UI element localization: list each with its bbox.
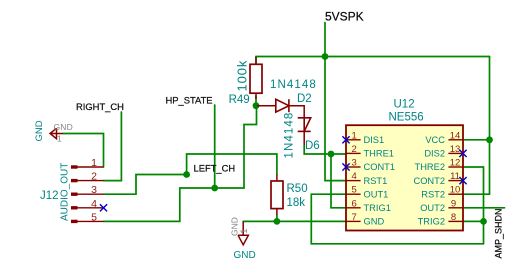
svg-text:1: 1 xyxy=(352,130,357,141)
svg-text:7: 7 xyxy=(352,212,357,223)
svg-text:8: 8 xyxy=(451,212,456,223)
wire HP_STATE label stub xyxy=(214,105,216,188)
junction node VCC pin14 xyxy=(486,136,493,143)
wire pin9 OUT2 to AMP_SHDN xyxy=(463,207,505,209)
svg-text:OUT1: OUT1 xyxy=(364,189,389,199)
svg-text:6: 6 xyxy=(352,198,357,209)
svg-text:RST1: RST1 xyxy=(364,176,388,186)
junction node R49/D2/HP xyxy=(253,102,260,109)
no-connect X pin1 xyxy=(100,136,467,211)
pin 2 xyxy=(77,180,104,182)
svg-text:RST2: RST2 xyxy=(421,189,445,199)
svg-text:1: 1 xyxy=(57,134,62,144)
svg-text:3: 3 xyxy=(352,158,357,169)
svg-text:14: 14 xyxy=(450,130,461,141)
wire jack pin5 to HP_STATE node xyxy=(104,188,215,221)
svg-text:12: 12 xyxy=(450,158,461,169)
svg-text:D2: D2 xyxy=(297,93,312,105)
svg-text:HP_STATE: HP_STATE xyxy=(166,95,213,106)
svg-text:R49: R49 xyxy=(229,94,250,106)
ground GND1 (left, rotated) xyxy=(50,128,63,138)
wire pin5 OUT1 bottom run xyxy=(311,194,483,244)
svg-text:J12: J12 xyxy=(40,190,59,202)
pin 4 xyxy=(77,207,104,209)
svg-text:2: 2 xyxy=(91,171,97,183)
svg-text:11: 11 xyxy=(450,171,460,182)
no-connect X pin13 xyxy=(459,150,466,157)
wire jack pin3 to LEFT_CH node xyxy=(104,175,187,195)
svg-text:13: 13 xyxy=(450,144,461,155)
wire GND1 to jack pin1 xyxy=(63,134,104,168)
wire LEFT_CH node to R50 top xyxy=(187,154,277,175)
svg-text:RIGHT_CH: RIGHT_CH xyxy=(76,101,124,112)
svg-text:1: 1 xyxy=(239,229,250,234)
svg-text:5VSPK: 5VSPK xyxy=(325,10,364,24)
svg-text:5: 5 xyxy=(352,185,357,196)
wire 5VSPK label stub xyxy=(324,23,326,57)
svg-text:CONT1: CONT1 xyxy=(364,162,396,172)
diode D6 1N4148 xyxy=(298,118,311,145)
svg-text:4: 4 xyxy=(352,171,357,182)
svg-text:GND: GND xyxy=(34,120,45,141)
junction node LEFT_CH xyxy=(183,171,190,178)
svg-text:OUT2: OUT2 xyxy=(420,203,445,213)
pin 6 stub xyxy=(346,207,361,209)
svg-text:AMP_SHDN: AMP_SHDN xyxy=(494,208,504,258)
pin 10 stub xyxy=(448,193,463,195)
svg-text:D6: D6 xyxy=(305,140,320,152)
pin 7 stub xyxy=(346,220,361,222)
wire R50 bottom to GND rail xyxy=(276,215,278,221)
wire pin12 THRE2 drop xyxy=(463,167,484,244)
svg-text:DIS1: DIS1 xyxy=(364,135,385,145)
svg-text:THRE1: THRE1 xyxy=(364,149,394,159)
svg-text:VCC: VCC xyxy=(425,135,445,145)
wire RIGHT_CH to jack pin2 xyxy=(104,112,122,181)
svg-text:GND: GND xyxy=(364,217,385,227)
wire R49 bottom to node xyxy=(255,96,257,106)
svg-text:CONT2: CONT2 xyxy=(413,176,445,186)
pin 3 stub xyxy=(346,166,361,168)
svg-text:1: 1 xyxy=(91,157,97,169)
svg-text:100k: 100k xyxy=(235,60,250,92)
svg-text:DIS2: DIS2 xyxy=(424,149,445,159)
connector J12 AUDIO_OUT xyxy=(71,165,104,223)
no-connect X pin11 xyxy=(459,177,466,184)
resistor R49 100k xyxy=(250,57,262,99)
junction node 5VSPK/R49 rail xyxy=(322,53,329,60)
svg-text:9: 9 xyxy=(451,198,456,209)
junction node HP_STATE xyxy=(211,185,218,192)
junction node GND/R50 xyxy=(274,218,281,225)
pin 2 stub xyxy=(346,152,361,154)
svg-text:R50: R50 xyxy=(287,183,308,195)
resistor R50 18k xyxy=(271,174,283,215)
pin 1 xyxy=(72,166,104,168)
pin 13 stub xyxy=(448,152,463,154)
pin 5 xyxy=(77,220,104,222)
pin 3 xyxy=(77,193,104,195)
svg-text:GND: GND xyxy=(54,122,74,132)
svg-text:1N4148: 1N4148 xyxy=(284,112,296,159)
wire GND2 rail to pin7 xyxy=(243,220,346,222)
pin 12 stub xyxy=(448,166,463,168)
wire pin8 TRIG2 xyxy=(463,220,484,222)
wire VCC to pin10 RST2 xyxy=(463,140,490,194)
pin 1 stub xyxy=(346,139,361,141)
svg-text:NE556: NE556 xyxy=(389,112,424,124)
wire D6 cathode to pin2 THRE1 xyxy=(304,145,346,154)
svg-text:3: 3 xyxy=(91,184,97,196)
svg-text:18k: 18k xyxy=(287,197,306,209)
pin 11 stub xyxy=(448,180,463,182)
svg-text:TRIG2: TRIG2 xyxy=(418,217,445,227)
U12 left pin stubs xyxy=(346,140,463,222)
svg-text:2: 2 xyxy=(352,144,357,155)
svg-text:TRIG1: TRIG1 xyxy=(364,203,391,213)
wire 5VSPK to pin4 RST1 xyxy=(325,57,346,181)
svg-text:U12: U12 xyxy=(394,99,415,111)
svg-text:4: 4 xyxy=(91,198,97,210)
junction node THRE1/TRIG1 xyxy=(328,151,335,158)
pin 14 stub xyxy=(448,139,463,141)
svg-text:5: 5 xyxy=(91,211,97,223)
wire HP_STATE node to R49/D2 node xyxy=(215,106,257,188)
pin 5 stub xyxy=(346,193,361,195)
svg-text:LEFT_CH: LEFT_CH xyxy=(194,163,236,174)
wire pin14 VCC xyxy=(463,139,490,141)
ground GND2 (bottom middle) xyxy=(238,221,248,244)
svg-text:1N4148: 1N4148 xyxy=(270,79,317,91)
svg-text:AUDIO_OUT: AUDIO_OUT xyxy=(59,163,70,221)
no-connect X pin3 xyxy=(342,163,349,170)
pin 8 stub xyxy=(448,220,463,222)
wire 5VSPK top rail xyxy=(256,56,490,58)
diode D2 1N4148 xyxy=(257,99,304,118)
svg-text:GND: GND xyxy=(234,250,256,261)
wire R49 top to rail xyxy=(255,57,257,65)
junction node TRIG2/THRE2 xyxy=(480,218,487,225)
IC U12 NE556 body xyxy=(346,125,463,230)
pin 4 stub xyxy=(346,180,361,182)
pin 9 stub xyxy=(448,207,463,209)
no-connect X jack pin4 xyxy=(100,204,107,211)
wire pin2 node down to pin6 TRIG1 xyxy=(331,154,346,208)
svg-text:10: 10 xyxy=(450,185,461,196)
wire VCC drop to pin 14 xyxy=(489,57,491,140)
svg-text:THRE2: THRE2 xyxy=(415,162,445,172)
